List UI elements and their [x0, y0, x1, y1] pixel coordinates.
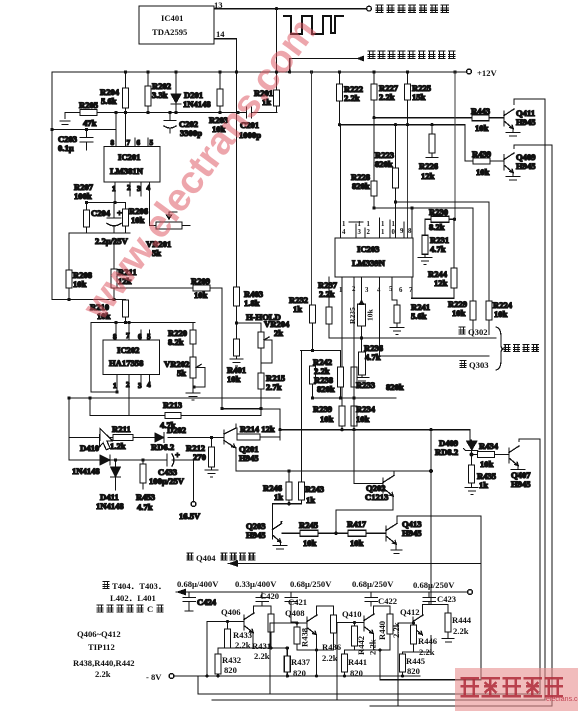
gray vertical x455	[454, 72, 456, 219]
label 场幅调整	[504, 345, 539, 352]
wire left drop to diodes	[68, 398, 70, 460]
svg-text:2.2k: 2.2k	[391, 622, 401, 638]
label 接行输出管C极	[97, 605, 144, 612]
pin2 lead / R234 column / Q202 base	[353, 277, 355, 367]
svg-text:820: 820	[350, 668, 363, 678]
pin leads below	[117, 375, 150, 416]
svg-text:820k: 820k	[317, 384, 335, 394]
svg-text:0.33μ/400V: 0.33μ/400V	[235, 579, 277, 589]
svg-text:LM381N: LM381N	[110, 166, 144, 176]
resistor R246	[286, 482, 292, 500]
svg-text:+: +	[175, 450, 180, 460]
svg-text:10k: 10k	[227, 374, 241, 384]
svg-text:820k: 820k	[375, 159, 393, 169]
resistor R202	[147, 72, 149, 113]
ground R212	[205, 467, 218, 477]
resistor R225	[407, 72, 409, 125]
resistor R228	[373, 118, 375, 208]
wire +12V bus	[52, 71, 466, 73]
cell 4 : transistor Q412	[413, 615, 423, 635]
svg-text:820k: 820k	[386, 382, 404, 392]
svg-text:TDA2595: TDA2595	[152, 27, 187, 37]
svg-text:5: 5	[147, 333, 151, 341]
svg-text:10k: 10k	[194, 290, 208, 300]
svg-text:R433: R433	[233, 630, 252, 640]
svg-text:100k: 100k	[74, 191, 92, 201]
resistor R203	[219, 72, 221, 113]
svg-text:10k: 10k	[320, 414, 334, 424]
wire y679.6	[380, 516, 481, 680]
ground Q203	[273, 544, 287, 549]
ground R444	[442, 639, 454, 643]
pin numbers below	[339, 286, 413, 294]
svg-text:1: 1	[113, 382, 117, 390]
resistor R401	[234, 339, 240, 356]
resistor R237	[328, 277, 330, 338]
resistor R443	[472, 115, 489, 121]
wire to VR204	[237, 323, 262, 332]
svg-text:R443: R443	[471, 106, 490, 116]
svg-text:Q408: Q408	[285, 608, 305, 618]
resistor R233	[351, 367, 357, 387]
svg-text:R233: R233	[356, 380, 375, 390]
potentiometer VR202	[190, 357, 196, 378]
svg-text:1k: 1k	[479, 480, 488, 490]
svg-text:Q406: Q406	[221, 607, 241, 617]
ground Q409	[506, 174, 520, 181]
svg-text:R438: R438	[300, 627, 310, 647]
wire R211b row y437.5	[69, 437, 224, 439]
svg-text:H945: H945	[239, 453, 259, 463]
svg-text:H945: H945	[246, 530, 266, 540]
wire pin13 top	[214, 8, 366, 10]
svg-text:12k: 12k	[421, 171, 435, 181]
capacitor C424	[183, 592, 196, 611]
resistor R236	[359, 352, 366, 375]
label 去Q302	[459, 327, 466, 334]
comparator IC203 box	[335, 238, 413, 277]
svg-text:R230: R230	[429, 207, 448, 217]
svg-text:7: 7	[127, 139, 131, 147]
wire x396 to IC203	[395, 202, 397, 238]
svg-text:4: 4	[147, 381, 151, 389]
svg-text:LM339N: LM339N	[352, 258, 386, 268]
brace	[496, 327, 504, 370]
svg-text:D202: D202	[167, 425, 186, 435]
resistor R215 2.7k	[258, 373, 264, 389]
svg-text:1: 1	[358, 221, 362, 228]
wire y336.5 去Q302 line	[329, 337, 496, 339]
svg-text:R436: R436	[322, 642, 342, 652]
mouse cursor	[100, 429, 113, 450]
terminal -8V	[169, 674, 174, 679]
resistor R214	[237, 434, 260, 440]
resistor R229	[470, 301, 476, 320]
resistor R417	[348, 530, 366, 536]
svg-text:2.2k: 2.2k	[379, 92, 395, 102]
resistor R223	[395, 125, 397, 202]
svg-text:6: 6	[137, 139, 141, 147]
wire R246/R243 tops	[289, 351, 302, 483]
wire R211 top tie	[113, 237, 115, 239]
pin4 lead to VR201	[149, 182, 151, 226]
wire x455 to R230	[449, 218, 455, 220]
wire y408.5	[222, 408, 261, 410]
svg-text:4.7k: 4.7k	[365, 352, 381, 362]
pin 6 lead	[134, 138, 136, 147]
resistor R205	[80, 110, 97, 116]
wire y694	[198, 439, 540, 694]
resistor R230	[431, 216, 449, 222]
svg-text:47k: 47k	[83, 118, 97, 128]
svg-text:R446: R446	[418, 636, 438, 646]
wire y650 cell2	[297, 636, 334, 677]
resistor R224	[486, 301, 492, 320]
svg-text:+: +	[117, 208, 122, 218]
svg-text:2.7k: 2.7k	[266, 382, 282, 392]
resistor R245	[300, 530, 318, 536]
pin1 lead below / R239 column	[341, 277, 343, 406]
resistor R244	[453, 219, 455, 268]
potentiometer VR204	[258, 332, 264, 348]
svg-text:1: 1	[381, 229, 385, 236]
svg-text:R235: R235	[348, 307, 357, 324]
svg-text:R234: R234	[356, 404, 376, 414]
svg-text:C424: C424	[197, 597, 217, 607]
wire jog to R213 line	[89, 398, 91, 416]
resistor R204	[125, 72, 127, 113]
svg-text:R417: R417	[347, 519, 367, 529]
svg-text:8: 8	[113, 333, 117, 341]
wire y398 long	[69, 397, 280, 399]
svg-text:1: 1	[342, 221, 346, 228]
svg-text:4.7k: 4.7k	[137, 502, 153, 512]
pin numbers above (stacked)	[342, 221, 412, 236]
ground R435	[465, 488, 478, 495]
wire R246/R243 bottom node	[273, 500, 302, 526]
wire y650 cell3	[345, 635, 391, 680]
capacitor C433	[143, 454, 194, 466]
wire -8V bus y676	[174, 675, 420, 677]
wire main row	[65, 112, 277, 114]
svg-text:2.2k: 2.2k	[419, 647, 435, 657]
svg-text:5.6k: 5.6k	[411, 311, 427, 321]
svg-text:1k: 1k	[274, 492, 283, 502]
diode D411	[115, 460, 117, 467]
resistor R444	[429, 605, 448, 614]
wire y322.5	[91, 322, 195, 324]
svg-text:9: 9	[400, 228, 404, 235]
capacitor C203	[80, 130, 93, 151]
label 经T404、T403、	[103, 582, 110, 589]
svg-text:16.5V: 16.5V	[179, 511, 201, 521]
transistor Q411	[504, 109, 514, 129]
wire y117.6 to R443	[374, 117, 472, 119]
wire Q406 base	[207, 622, 244, 677]
svg-text:5.6k: 5.6k	[101, 96, 117, 106]
resistor R234	[351, 406, 357, 426]
resistor R226	[431, 125, 433, 157]
wire y233 collect	[69, 232, 130, 234]
pin3 lead	[140, 182, 142, 196]
svg-text:R438,R440,R442: R438,R440,R442	[73, 658, 135, 668]
svg-text:100μ/25V: 100μ/25V	[149, 476, 185, 486]
svg-text:R431: R431	[252, 641, 271, 651]
wire y129.5 C203 line	[52, 129, 116, 131]
wire y648 cell1	[218, 634, 287, 649]
wire Q202 base from pin2 column	[354, 367, 383, 484]
gray vertical x407.5	[407, 127, 409, 238]
ground R231	[418, 258, 432, 265]
svg-text:C: C	[147, 604, 153, 614]
wire y700	[212, 99, 545, 700]
svg-text:R440: R440	[377, 621, 387, 640]
svg-text:0: 0	[392, 229, 396, 236]
svg-text:10k: 10k	[494, 309, 508, 319]
resistor R235 (wide, rotated labels)	[358, 304, 366, 326]
label 去三色显示控制电路	[368, 51, 456, 58]
pin 8 lead	[115, 113, 117, 147]
svg-text:1.2k: 1.2k	[110, 441, 126, 451]
resistor R446	[413, 623, 415, 625]
svg-text:Q404: Q404	[196, 553, 216, 563]
wire left frame	[51, 72, 53, 300]
svg-text:0.1μ: 0.1μ	[58, 143, 74, 153]
wire y415.5 R213 line	[90, 415, 261, 417]
svg-text:Q410: Q410	[342, 609, 362, 619]
svg-text:R226: R226	[419, 161, 439, 171]
svg-text:C420: C420	[260, 591, 279, 601]
svg-text:Q412: Q412	[400, 607, 420, 617]
svg-text:2.2k: 2.2k	[235, 640, 251, 650]
svg-text:2.2k: 2.2k	[319, 289, 335, 299]
wire x431 down	[430, 430, 432, 604]
svg-text:13: 13	[214, 0, 223, 10]
wire 去Q404 line	[228, 563, 481, 565]
ground R241	[390, 328, 404, 335]
svg-text:R444: R444	[452, 615, 472, 625]
resistor R227	[373, 72, 375, 118]
diode D201	[175, 72, 177, 113]
svg-text:8: 8	[111, 139, 115, 147]
svg-text:0.68μ/250V: 0.68μ/250V	[413, 580, 455, 590]
svg-text:4.7k: 4.7k	[430, 244, 446, 254]
capacitor C201	[247, 107, 252, 118]
resistor R207	[86, 203, 88, 234]
arrowhead	[356, 56, 364, 62]
wire y429.6 long	[280, 430, 470, 440]
svg-text:1k: 1k	[293, 304, 302, 314]
wire y208 R228 to R229	[374, 208, 473, 301]
wire y652 cell4	[403, 636, 432, 653]
resistor R432	[217, 648, 219, 654]
op-amp IC401 box	[139, 6, 214, 44]
resistor R436	[317, 606, 334, 615]
node H-HOLD junction	[235, 321, 238, 324]
pin2 lead	[129, 182, 131, 196]
resistor R209	[193, 285, 210, 291]
wire Q410 base	[337, 623, 364, 701]
op-amp IC201 box	[104, 147, 160, 183]
svg-text:8.2k: 8.2k	[429, 222, 445, 232]
resistor R211 1.2k	[113, 435, 133, 441]
cell 1 : transistor Q406	[244, 613, 254, 633]
wire y299.5	[52, 299, 126, 301]
waveform sync pulse glyph	[284, 16, 343, 34]
label 去Q404 行幅调整	[187, 553, 194, 560]
resistor R213	[165, 413, 181, 419]
capacitor C204 polarized	[107, 203, 121, 234]
svg-text:1: 1	[367, 221, 371, 228]
svg-text:C1213: C1213	[365, 492, 388, 502]
svg-text:1.8k: 1.8k	[244, 298, 260, 308]
svg-text:H945: H945	[511, 479, 531, 489]
label 行同步脉冲输入	[376, 5, 449, 13]
wire y124.6 to R439 drop	[340, 125, 474, 161]
transistor Q409	[504, 153, 514, 173]
svg-text:12k: 12k	[434, 278, 448, 288]
svg-text:0.68μ/400V: 0.68μ/400V	[177, 579, 219, 589]
wire y533 row	[282, 532, 386, 534]
node bus junctions	[124, 70, 457, 73]
svg-text:3: 3	[358, 229, 362, 236]
svg-text:H945: H945	[516, 117, 536, 127]
transistor Q202	[383, 476, 394, 497]
resistor R431	[262, 606, 271, 614]
ground Q413	[391, 550, 402, 554]
resistor R241	[394, 305, 400, 323]
resistor R440	[374, 606, 391, 614]
resistor R442	[354, 623, 356, 627]
svg-text:1: 1	[392, 221, 396, 228]
wire y706	[370, 145, 552, 706]
svg-text:R437: R437	[291, 657, 311, 667]
crystal bar above pin13	[349, 221, 363, 223]
capacitor C422	[365, 592, 378, 606]
wire Q408 base	[270, 623, 307, 694]
wire R209 down	[221, 288, 223, 409]
wire y202.5 node line	[87, 202, 126, 204]
svg-text:R432: R432	[222, 655, 241, 665]
svg-text:10k: 10k	[356, 414, 370, 424]
svg-text:8: 8	[408, 228, 412, 235]
svg-text:0.68μ/250V: 0.68μ/250V	[352, 579, 394, 589]
wire Q201 emitter down + y471 line	[236, 470, 431, 472]
svg-text:2.2k: 2.2k	[368, 639, 378, 655]
potentiometer VR201	[156, 222, 182, 229]
svg-text:1k: 1k	[306, 495, 315, 505]
terminal 16.5V	[193, 460, 195, 501]
pin4 lead	[379, 277, 381, 356]
resistor R201	[276, 9, 278, 113]
capacitor C421	[285, 592, 298, 622]
svg-text:820: 820	[407, 666, 420, 676]
svg-text:R445: R445	[406, 656, 425, 666]
svg-text:5k: 5k	[177, 368, 186, 378]
svg-text:- 8V: - 8V	[146, 672, 162, 682]
svg-text:3: 3	[138, 382, 142, 390]
wire Q203 collector to R245 row	[281, 522, 284, 534]
svg-text:15k: 15k	[412, 92, 426, 102]
gray vertical x311.5	[311, 72, 313, 305]
svg-text:IC401: IC401	[161, 13, 183, 23]
svg-text:1N4148: 1N4148	[96, 501, 124, 511]
svg-text:820k: 820k	[352, 181, 370, 191]
resistor R238	[338, 367, 344, 387]
svg-text:R453: R453	[136, 492, 155, 502]
resistor R437	[286, 648, 288, 656]
resistor R403	[234, 287, 240, 306]
svg-text:10k: 10k	[366, 308, 375, 321]
terminal +12V	[467, 69, 472, 74]
svg-text:R205: R205	[79, 100, 98, 110]
svg-text:2k: 2k	[274, 328, 283, 338]
pin 5 lead	[147, 138, 149, 147]
resistor R222	[339, 72, 341, 125]
svg-text:IC203: IC203	[357, 244, 379, 254]
resistor R439	[473, 158, 490, 164]
svg-text:RD8.2: RD8.2	[435, 447, 458, 457]
ground Q407	[511, 468, 525, 474]
svg-text:1N4148: 1N4148	[72, 466, 100, 476]
ground R401	[230, 356, 243, 366]
transistor Q201	[224, 428, 236, 448]
wire feedback left	[91, 323, 115, 393]
resistor R445	[402, 652, 404, 654]
svg-text:H945: H945	[402, 528, 422, 538]
svg-text:R441: R441	[348, 657, 367, 667]
svg-text:2.2k: 2.2k	[254, 651, 270, 661]
svg-text:8.2k: 8.2k	[168, 337, 184, 347]
svg-text:+12V: +12V	[477, 68, 497, 78]
terminal 行同步脉冲输入	[367, 6, 372, 11]
wire y288 R209 row	[114, 287, 222, 289]
pin leads above	[341, 125, 413, 238]
svg-text:C204: C204	[91, 208, 111, 218]
svg-text:2: 2	[367, 229, 371, 236]
svg-text:C423: C423	[437, 594, 456, 604]
svg-text:R245: R245	[299, 520, 318, 530]
svg-text:R243: R243	[305, 484, 324, 494]
ground left of R205	[60, 113, 70, 125]
svg-text:R211: R211	[112, 424, 131, 434]
svg-text:10k: 10k	[452, 308, 466, 318]
svg-text:HA17358: HA17358	[109, 358, 144, 368]
wire y398 right segment	[313, 397, 397, 399]
resistor R206	[125, 203, 127, 234]
svg-text:10k: 10k	[475, 123, 489, 133]
diode D202 zener	[155, 433, 164, 442]
wire bottom cap bus	[176, 591, 467, 593]
wire y409 to x280	[222, 409, 280, 440]
wire y350.5	[301, 351, 341, 368]
wire Q412 base	[398, 623, 413, 706]
svg-text:R442: R442	[356, 636, 366, 655]
resistor R211 12k	[113, 238, 115, 300]
wire pin14	[214, 39, 237, 72]
svg-text:IC201: IC201	[118, 152, 140, 162]
svg-text:5: 5	[150, 139, 154, 147]
label 去Q303	[460, 361, 467, 368]
svg-text:D410: D410	[80, 443, 99, 453]
svg-text:1: 1	[381, 221, 385, 228]
resistor R435	[469, 465, 475, 483]
svg-text:270: 270	[193, 452, 206, 462]
resistor R212	[211, 438, 213, 448]
resistor R210	[125, 299, 127, 302]
svg-text:10k: 10k	[476, 167, 490, 177]
svg-text:3: 3	[365, 287, 369, 294]
